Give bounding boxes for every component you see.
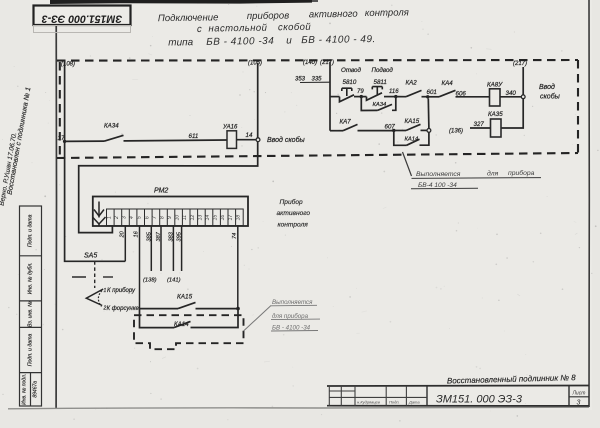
svg-text:КА2: КА2	[406, 80, 418, 87]
svg-text:2: 2	[114, 216, 120, 220]
svg-text:КА35: КА35	[488, 111, 503, 118]
svg-text:Вз. инв. №: Вз. инв. №	[28, 301, 34, 327]
svg-text:16: 16	[220, 215, 226, 221]
svg-text:3: 3	[122, 216, 128, 219]
svg-text:383: 383	[168, 231, 174, 241]
svg-text:74: 74	[232, 233, 238, 239]
svg-text:КА15: КА15	[405, 118, 420, 125]
svg-text:Выполняется: Выполняется	[272, 299, 313, 306]
svg-text:16: 16	[134, 230, 140, 237]
svg-text:Подп.: Подп.	[389, 400, 400, 405]
svg-text:327: 327	[474, 121, 485, 128]
svg-text:12: 12	[190, 215, 196, 221]
svg-text:КА14: КА14	[405, 137, 419, 143]
svg-text:Лист: Лист	[572, 391, 586, 397]
svg-text:3: 3	[577, 400, 581, 407]
svg-text:типа: типа	[168, 37, 194, 48]
svg-text:и: и	[286, 35, 292, 46]
svg-text:4: 4	[129, 216, 135, 219]
svg-text:5: 5	[137, 216, 143, 219]
svg-text:Подп. и дата: Подп. и дата	[28, 215, 34, 248]
svg-text:Ввод скобы: Ввод скобы	[267, 136, 306, 144]
svg-text:БВ - 4100 - 49.: БВ - 4100 - 49.	[301, 34, 376, 46]
svg-text:для: для	[487, 169, 499, 177]
svg-text:активного: активного	[309, 9, 359, 21]
svg-text:18: 18	[235, 215, 241, 221]
svg-text:(105): (105)	[248, 61, 262, 67]
svg-text:14: 14	[205, 215, 211, 221]
svg-text:9: 9	[167, 216, 173, 219]
svg-text:8: 8	[160, 216, 166, 219]
svg-text:(140): (140)	[303, 60, 317, 66]
svg-text:17: 17	[228, 215, 234, 221]
svg-text:БВ - 4100 -34: БВ - 4100 -34	[206, 36, 274, 48]
svg-text:Инв. № дубл.: Инв. № дубл.	[28, 262, 34, 294]
svg-text:скобой: скобой	[278, 22, 312, 33]
svg-text:6: 6	[144, 216, 150, 219]
svg-text:(217): (217)	[320, 60, 334, 66]
svg-text:ЗМ151.000 ЭЗ-3: ЗМ151.000 ЭЗ-3	[42, 12, 123, 24]
svg-text:11: 11	[182, 215, 188, 220]
svg-text:Ввод: Ввод	[539, 83, 555, 91]
svg-text:Инв. № подл.: Инв. № подл.	[22, 374, 28, 405]
svg-text:н.Кудрявцев: н.Кудрявцев	[357, 400, 380, 405]
svg-text:116: 116	[389, 89, 399, 95]
svg-text:SA5: SA5	[84, 253, 97, 260]
svg-text:(136): (136)	[449, 129, 463, 135]
svg-text:Выполняется: Выполняется	[416, 171, 461, 178]
svg-text:КА8У: КА8У	[487, 81, 503, 88]
svg-text:340: 340	[506, 90, 517, 97]
svg-text:395: 395	[177, 231, 183, 241]
svg-text:607: 607	[385, 123, 396, 130]
svg-text:335: 335	[312, 77, 323, 83]
svg-text:с: с	[197, 24, 202, 35]
svg-text:активного: активного	[277, 210, 311, 217]
svg-text:611: 611	[189, 133, 199, 140]
svg-text:БВ-4 100 -34: БВ-4 100 -34	[418, 182, 457, 189]
svg-text:КА4: КА4	[442, 80, 454, 87]
svg-text:14: 14	[246, 132, 253, 139]
svg-text:скобы: скобы	[540, 93, 561, 101]
svg-text:10: 10	[175, 215, 181, 221]
svg-text:(217): (217)	[513, 61, 527, 67]
svg-text:настольной: настольной	[208, 23, 267, 35]
svg-text:прибора: прибора	[508, 169, 535, 177]
svg-text:7: 7	[152, 216, 158, 219]
svg-text:ЗМ151. 000 ЭЗ-3: ЗМ151. 000 ЭЗ-3	[436, 394, 523, 406]
svg-text:КА34: КА34	[104, 123, 119, 130]
svg-text:79: 79	[357, 89, 364, 95]
svg-text:УА16: УА16	[222, 124, 238, 130]
svg-text:Подключение: Подключение	[158, 12, 219, 24]
svg-text:контроля: контроля	[365, 7, 409, 19]
svg-text:(141): (141)	[167, 278, 181, 284]
svg-text:(138): (138)	[143, 278, 157, 284]
svg-text:КА34: КА34	[373, 102, 387, 108]
svg-text:5811: 5811	[374, 79, 387, 86]
svg-text:601: 601	[427, 89, 437, 96]
svg-text:Отвод: Отвод	[341, 67, 362, 74]
svg-text:89467а: 89467а	[33, 381, 39, 398]
svg-text:15: 15	[213, 215, 219, 221]
svg-text:К форсунке: К форсунке	[107, 306, 140, 312]
svg-text:КА15: КА15	[177, 294, 193, 301]
svg-text:13: 13	[197, 215, 203, 221]
svg-text:606: 606	[456, 91, 467, 98]
svg-text:1: 1	[106, 216, 112, 219]
svg-text:КА14: КА14	[174, 321, 189, 328]
svg-text:Подп. и дата: Подп. и дата	[28, 334, 34, 367]
svg-text:385: 385	[146, 231, 152, 241]
svg-text:КА7: КА7	[340, 118, 352, 125]
svg-text:Прибор: Прибор	[280, 198, 303, 206]
svg-text:Дата: Дата	[408, 400, 420, 405]
svg-text:(108): (108)	[61, 62, 75, 68]
svg-text:5810: 5810	[343, 79, 357, 86]
svg-text:387: 387	[156, 231, 162, 241]
svg-text:Подвод: Подвод	[372, 67, 394, 74]
svg-text:20: 20	[119, 230, 125, 238]
svg-text:контроля: контроля	[278, 222, 309, 229]
svg-text:РМ2: РМ2	[154, 188, 168, 195]
svg-text:К прибору: К прибору	[107, 288, 136, 294]
svg-text:приборов: приборов	[247, 10, 290, 22]
